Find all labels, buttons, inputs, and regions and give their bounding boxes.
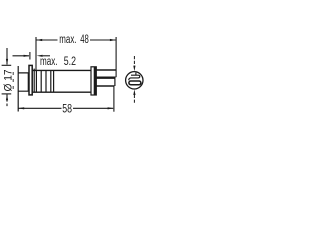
dimension max. 5.2 extension line left bbox=[29, 52, 31, 60]
rear view centerline upper bbox=[133, 56, 135, 66]
dimension diameter 17 arrow lower bbox=[6, 94, 8, 100]
rib 3 bbox=[45, 70, 47, 92]
dimension max. 48 arrow left bbox=[36, 39, 42, 41]
dimension max. 48 extension line left bbox=[35, 37, 37, 70]
svg-text:max.: max. bbox=[59, 34, 76, 46]
svg-text:48: 48 bbox=[80, 34, 89, 46]
rear view centerline lower bbox=[133, 95, 135, 104]
dimension max. 48 extension line right bbox=[115, 37, 117, 77]
dimension max. 5.2 arrow right bbox=[37, 55, 43, 57]
dimension diameter 17 tick upper bbox=[2, 64, 12, 66]
dimension max. 5.2 arrow left bbox=[24, 55, 30, 57]
dimension 58 arrow right bbox=[108, 107, 114, 109]
body front face rib bbox=[35, 70, 37, 92]
dimension diameter 17 tick lower bbox=[2, 93, 12, 95]
rear view arrow down bbox=[133, 66, 135, 72]
dimension max. 48 line bbox=[37, 39, 58, 41]
terminal blade lower top edge bbox=[96, 77, 115, 79]
terminal slot lower bbox=[129, 81, 141, 85]
flange bezel bbox=[29, 65, 32, 95]
dimension max. 5.2 leader right bbox=[43, 55, 50, 57]
rear view circle bbox=[126, 72, 143, 89]
body outline bbox=[33, 70, 91, 92]
rear view arrow up bbox=[133, 89, 135, 95]
rib 5 bbox=[53, 70, 55, 92]
dimension max. 48 arrow right bbox=[110, 39, 116, 41]
terminal blade lower tip edge bbox=[114, 78, 116, 86]
terminal blade lower bottom edge bbox=[96, 85, 114, 87]
rib 4 bbox=[50, 70, 52, 92]
terminal blade upper top edge bbox=[96, 69, 116, 71]
dimension diameter 17 line upper bbox=[6, 48, 8, 65]
dimension 58 arrow left bbox=[18, 107, 24, 109]
svg-text:Ø 17: Ø 17 bbox=[2, 70, 14, 92]
svg-text:58: 58 bbox=[62, 103, 72, 115]
gasket line bbox=[33, 69, 35, 93]
terminal blade upper bottom edge bbox=[96, 76, 116, 78]
terminal slot upper bbox=[129, 75, 140, 80]
dimension diameter 17 arrow upper bbox=[6, 59, 8, 65]
lens front face / dimension 58 extension line left bbox=[17, 66, 19, 112]
dimension max. 5.2 leader left bbox=[13, 55, 30, 57]
lens dome tip edge bbox=[12, 72, 14, 92]
dimension diameter 17 line lower bbox=[6, 95, 8, 109]
dimension 58 extension line right bbox=[113, 86, 115, 112]
rear end cap dark band bbox=[94, 67, 97, 95]
dimension 58 line bbox=[19, 107, 62, 109]
svg-text:5.2: 5.2 bbox=[64, 56, 76, 68]
terminal slot upper keyway tick bbox=[135, 73, 137, 76]
lens bbox=[18, 73, 28, 91]
rear end cap bbox=[91, 67, 96, 95]
rib 2 bbox=[40, 70, 42, 92]
svg-text:max.: max. bbox=[40, 56, 58, 68]
